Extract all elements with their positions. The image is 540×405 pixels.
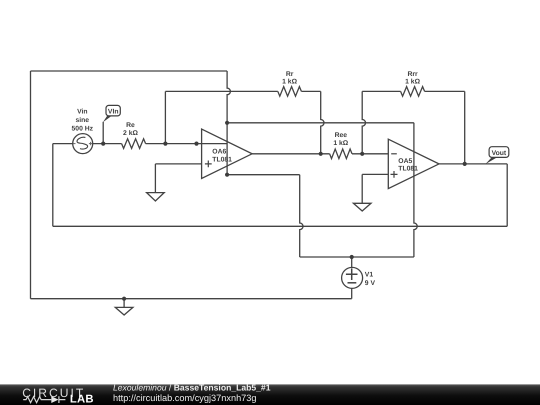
- resistor Ree zigzag: [330, 149, 352, 159]
- wire V1 bottom stub: [351, 288, 353, 298]
- source Vin plus mark: [89, 142, 92, 145]
- svg-text:VIn: VIn: [108, 108, 119, 115]
- wire right edge vertical: [506, 164, 508, 226]
- wire bottom rail: [31, 298, 352, 300]
- wire OA6 power vertical with hop: [227, 71, 230, 175]
- source Vin circle: [73, 134, 93, 154]
- svg-text:1 kΩ: 1 kΩ: [333, 140, 348, 147]
- junction Rr right at OA6 output: [319, 152, 323, 156]
- junction at Rr left: [163, 142, 167, 146]
- source V1 plus mark: [346, 268, 358, 280]
- svg-text:http://circuitlab.com/cygj37nx: http://circuitlab.com/cygj37nxnh73g: [113, 393, 257, 403]
- svg-text:1 kΩ: 1 kΩ: [405, 79, 420, 86]
- svg-text:V1: V1: [365, 272, 374, 279]
- svg-text:Re: Re: [126, 122, 135, 129]
- op-amp OA6 plus mark: [205, 161, 212, 168]
- wire left outer vertical: [30, 71, 32, 299]
- flag Vout: [485, 147, 508, 164]
- op-amp OA5 plus mark: [391, 171, 398, 178]
- wire Vin left lead: [53, 143, 73, 145]
- footer bar: [0, 384, 540, 405]
- svg-text:LAB: LAB: [70, 394, 94, 405]
- op-amp U2 OA5 triangle: [388, 139, 439, 188]
- svg-text:TL081: TL081: [398, 165, 418, 172]
- wire OA5 non-inverting input: [362, 173, 388, 175]
- junction OA6 V+: [225, 121, 229, 125]
- ground G1 triangle: [147, 193, 165, 201]
- resistor Rr zigzag: [278, 87, 302, 97]
- wire Rrr rail left: [362, 90, 400, 92]
- wire Re to OA6 inverting input: [146, 143, 228, 145]
- wire Rr rail right: [301, 90, 320, 92]
- wire Rr rail left: [165, 90, 277, 92]
- logo resistor zigzag: [23, 397, 51, 403]
- svg-text:OA5: OA5: [398, 158, 412, 165]
- wire Ree to OA5 inverting input: [352, 153, 388, 155]
- svg-text:sine: sine: [75, 117, 89, 124]
- svg-text:9 V: 9 V: [365, 280, 376, 287]
- junction Rrr left at OA5 inverting input: [360, 152, 364, 156]
- wire OA6 output to Ree: [252, 153, 330, 155]
- junction Rrr right at OA5 output: [463, 162, 467, 166]
- wire Rrr right vertical: [464, 91, 466, 163]
- svg-text:TL081: TL081: [212, 156, 232, 163]
- svg-text:Rrr: Rrr: [407, 71, 418, 78]
- junction at OA6 inverting pin: [194, 142, 198, 146]
- wire long feedback rail: [53, 225, 507, 227]
- wire Rr right vertical with hop: [321, 91, 324, 153]
- wire Vin right lead to Re: [93, 143, 122, 145]
- svg-text:500 Hz: 500 Hz: [72, 126, 94, 133]
- source Vin sine glyph: [77, 137, 88, 149]
- wire OA6 V- to corner: [227, 174, 300, 176]
- op-amp U1 OA6 triangle: [202, 129, 253, 178]
- svg-text:Rr: Rr: [286, 71, 294, 78]
- wire ground stem G3: [123, 299, 125, 308]
- source Vin minus mark: [73, 143, 76, 145]
- source V1 circle: [342, 267, 363, 288]
- junction ground G3: [122, 297, 126, 301]
- wire Rrr rail right: [425, 90, 465, 92]
- ground G2 triangle: [353, 203, 371, 211]
- svg-text:Lexouleminou / BasseTension_La: Lexouleminou / BasseTension_Lab5_#1: [113, 382, 271, 392]
- junction at VIn flag: [101, 142, 105, 146]
- svg-text:Vin: Vin: [77, 108, 87, 115]
- svg-text:Vout: Vout: [492, 150, 507, 157]
- ground G3 triangle: [115, 307, 133, 315]
- wire Rr left vertical: [164, 91, 166, 143]
- op-amp OA5 minus mark: [391, 153, 397, 155]
- junction V1 top: [350, 255, 354, 259]
- wire V1 top stub: [351, 257, 353, 267]
- svg-text:1 kΩ: 1 kΩ: [282, 79, 297, 86]
- wire Rrr left vertical with hop: [362, 91, 365, 153]
- wire OA5 power vertical with hop: [414, 123, 417, 257]
- wire OA6 non-inverting input: [155, 163, 201, 165]
- svg-text:2 kΩ: 2 kΩ: [123, 130, 138, 137]
- wire V+ rail: [227, 122, 414, 124]
- wire V- rail: [300, 256, 414, 258]
- wire top rail: [31, 70, 228, 72]
- wire V- left vertical with hop: [300, 175, 303, 257]
- wire OA5 output: [439, 163, 507, 165]
- svg-text:Ree: Ree: [335, 132, 348, 139]
- wire VIn flag stub: [102, 122, 104, 144]
- wire ground stem G1: [154, 164, 156, 193]
- junction OA6 V-: [225, 173, 229, 177]
- wire left return vertical: [52, 144, 54, 227]
- flag VIn: [103, 105, 120, 122]
- svg-text:OA6: OA6: [212, 149, 226, 156]
- wire ground stem G2: [361, 174, 363, 203]
- resistor Re zigzag: [122, 139, 146, 149]
- logo diode symbol: [51, 396, 58, 403]
- resistor Rrr zigzag: [401, 87, 425, 97]
- source V1 minus mark: [348, 282, 357, 284]
